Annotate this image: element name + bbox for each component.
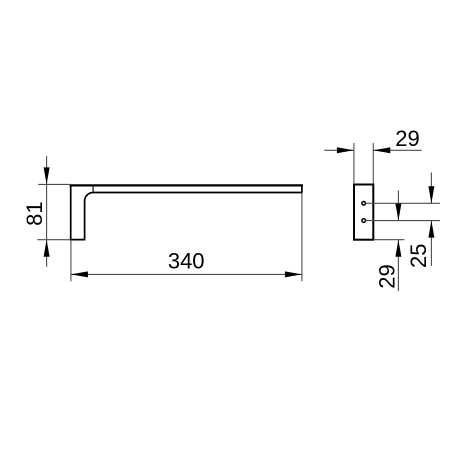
dimension 340 right arrowhead (285, 271, 302, 277)
svg-text:29: 29 (395, 126, 419, 151)
dimension 25 upper arrowhead (428, 186, 434, 203)
svg-text:29: 29 (374, 264, 399, 288)
dimension 81 lower arrowhead (44, 240, 50, 257)
dimension 81 label (22, 201, 47, 225)
dimension 29 hole spacing lower tail line (397, 240, 399, 291)
dimension 25 upper tail line (430, 173, 432, 204)
dimension 81 dimension line (46, 156, 48, 267)
side view thick top edge (70, 184, 303, 186)
dimension 29 width left extension line (353, 143, 355, 185)
front view wall plate rectangle (354, 185, 373, 240)
dimension 25 lower tail line (430, 221, 432, 266)
dimension 340 label (168, 249, 205, 274)
dimension 81 bottom extension line (37, 239, 70, 241)
svg-text:340: 340 (168, 249, 205, 274)
dimension 29 width right tail line (373, 149, 421, 151)
dimension 29 hole spacing upper arrowhead (395, 204, 401, 221)
screw hole lower (362, 219, 366, 223)
dimension 340 dimension line (71, 273, 302, 275)
side view outline of towel holder (71, 185, 302, 239)
dimension 29 width right arrowhead (373, 147, 390, 153)
dimension 29 hole spacing upper tail line (397, 191, 399, 221)
dimension 81 top extension line (38, 183, 70, 185)
plate bottom extension line (373, 239, 404, 241)
dimension 29 width label (395, 126, 419, 151)
dimension 81 upper arrowhead (44, 167, 50, 184)
dimension 25 label (406, 244, 431, 268)
side view junction line between post and bar (92, 185, 94, 193)
screw hole upper (362, 202, 366, 206)
lower hole axis line (366, 220, 441, 222)
dimension 29 hole spacing label (374, 264, 399, 288)
svg-text:25: 25 (406, 244, 431, 268)
dimension 25 lower arrowhead (428, 221, 434, 238)
svg-text:81: 81 (22, 201, 47, 225)
dimension 340 left arrowhead (71, 271, 88, 277)
dimension 29 width left tail line (324, 149, 354, 151)
dimension 29 width right extension line (372, 143, 374, 185)
dimension 340 right extension line (301, 193, 303, 282)
dimension 340 left extension line (70, 240, 72, 282)
upper hole axis line (366, 202, 441, 204)
dimension 29 hole spacing lower arrowhead (395, 240, 401, 257)
dimension 29 width left arrowhead (337, 147, 354, 153)
